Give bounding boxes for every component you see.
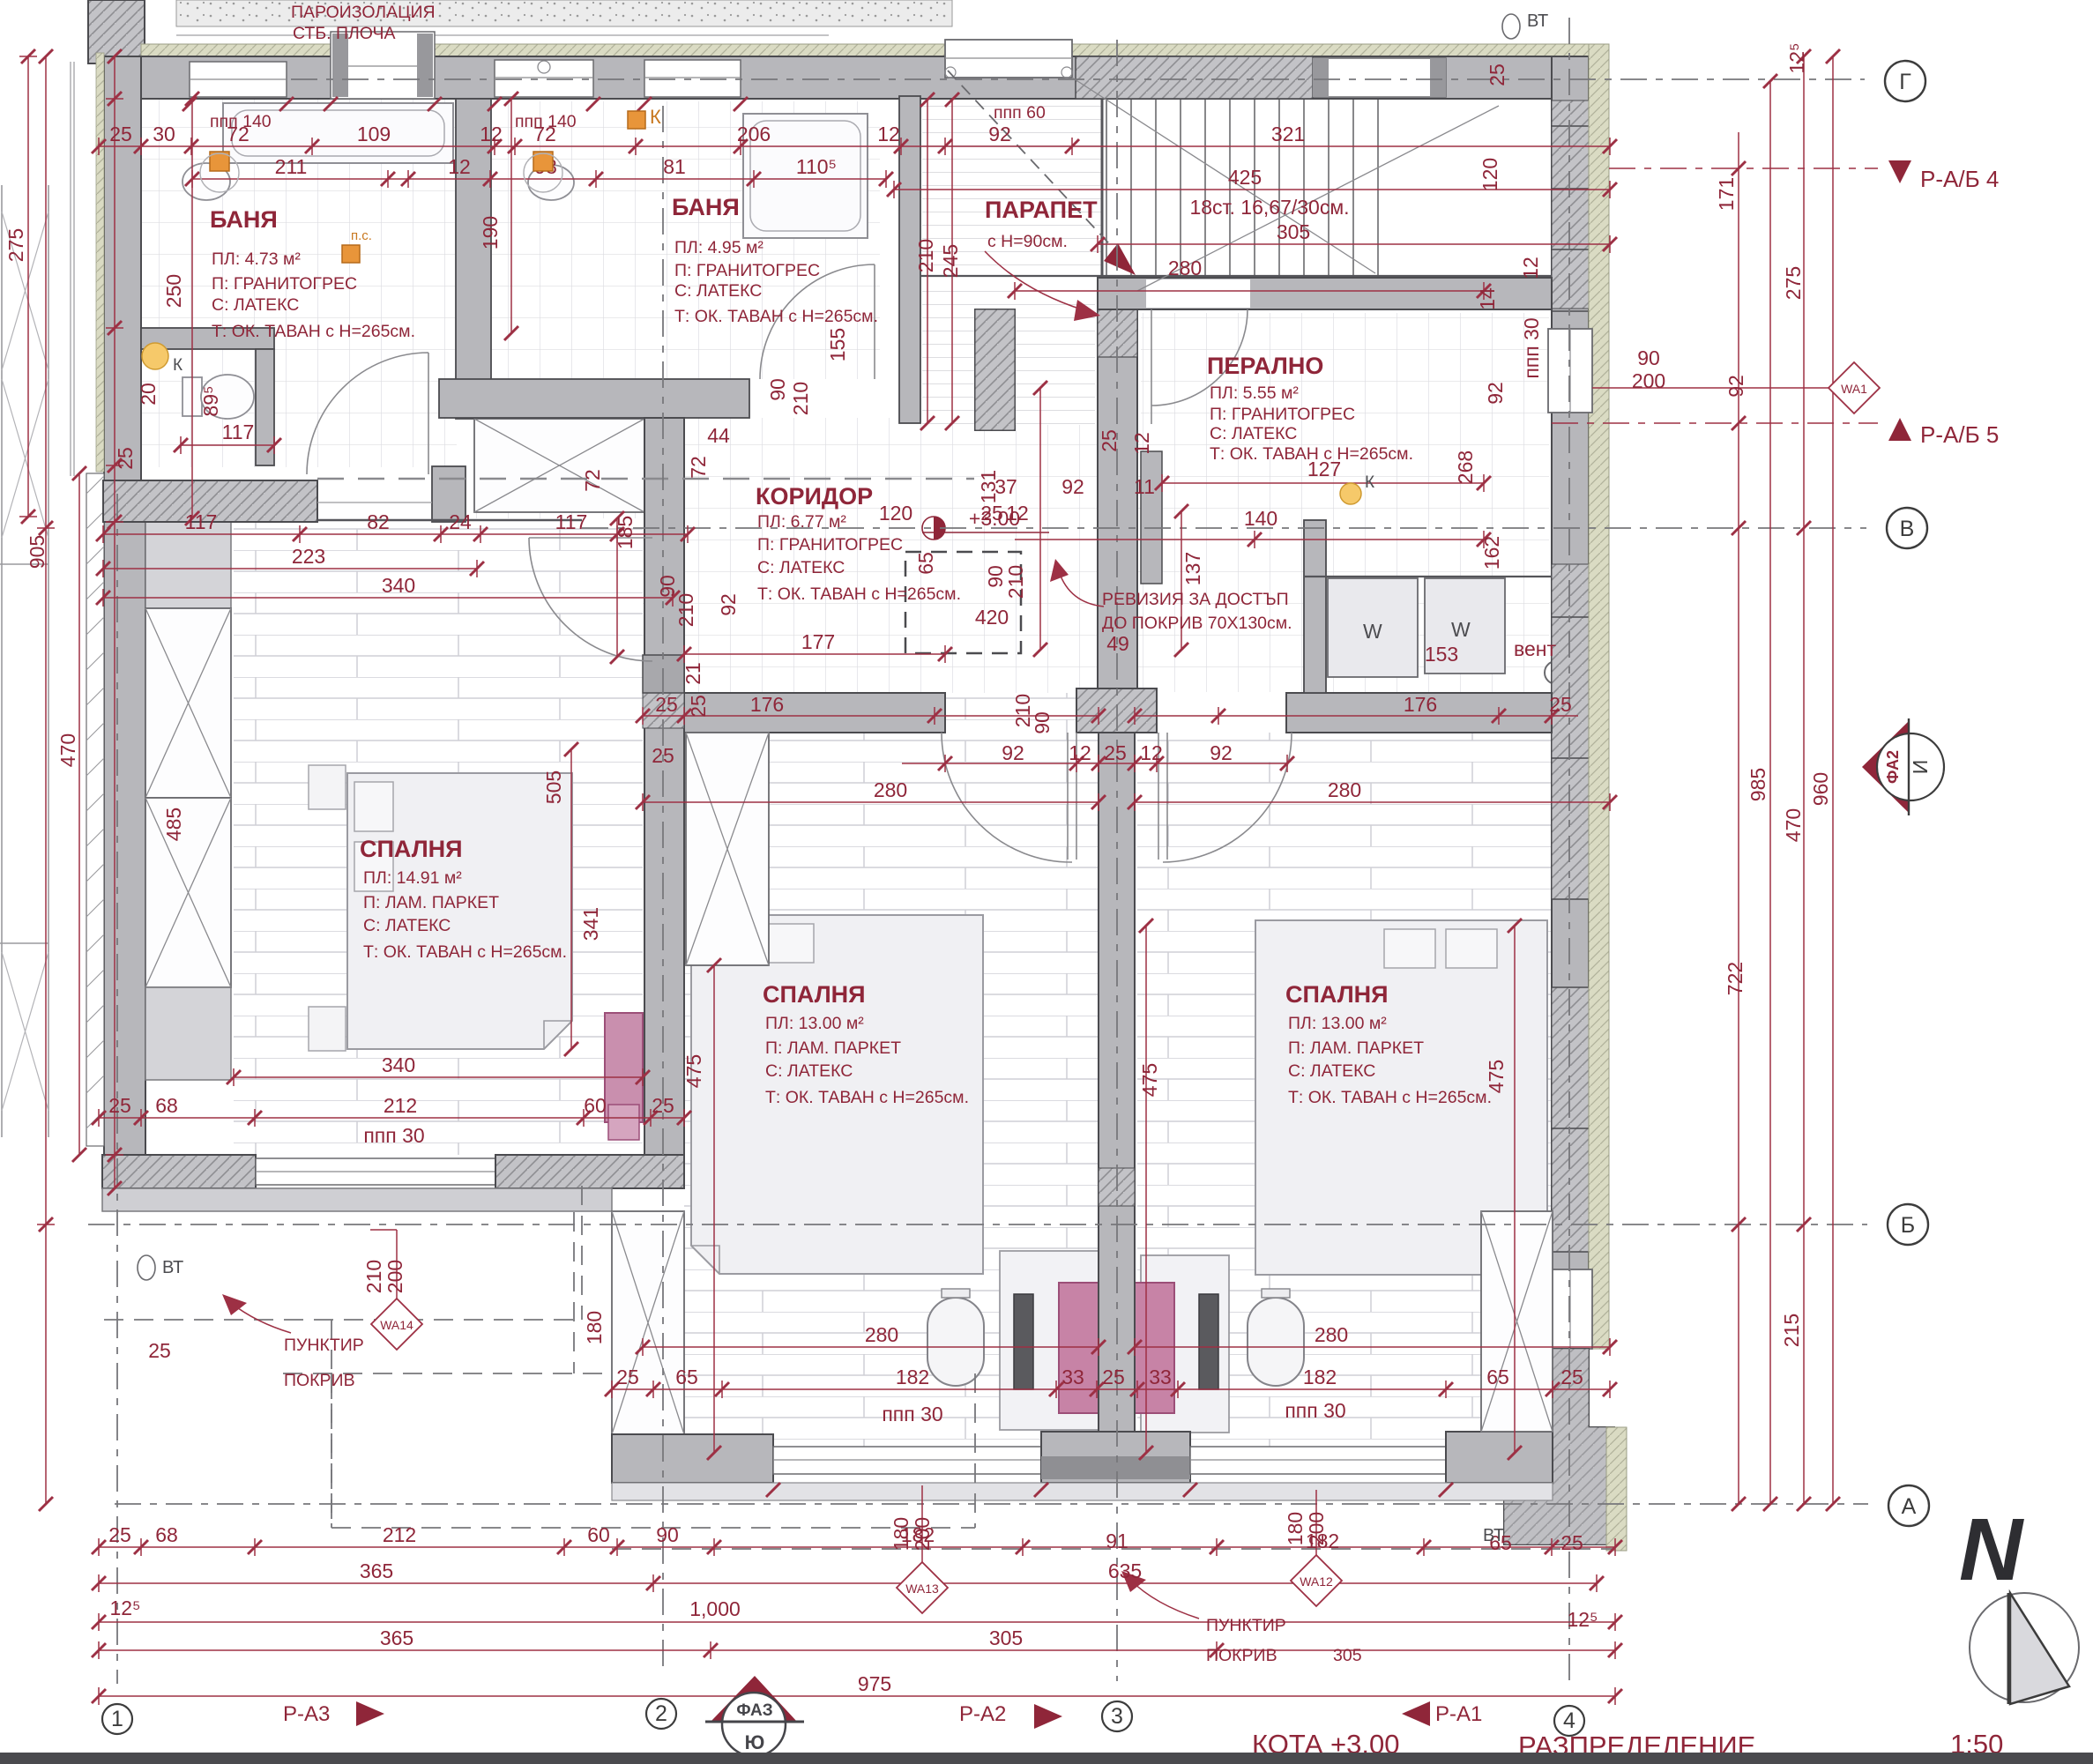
door arc laundry <box>1151 309 1248 424</box>
svg-text:25: 25 <box>1098 429 1121 452</box>
svg-text:635: 635 <box>1108 1559 1142 1582</box>
window top W3 <box>495 60 593 97</box>
bedroom 1 bottom wall hatched right <box>495 1155 684 1188</box>
dim chain 340 upper <box>103 589 673 607</box>
svg-text:280: 280 <box>874 778 907 801</box>
bedroom 1 bottom window <box>256 1158 495 1185</box>
bedroom 2 bottom window <box>773 1447 1041 1474</box>
dim chain 280 bedroom2 y910 <box>643 793 1099 811</box>
svg-text:БАНЯ: БАНЯ <box>672 194 740 220</box>
svg-text:ПЕРАЛНО: ПЕРАЛНО <box>1207 353 1323 379</box>
svg-text:П: ГРАНИТОГРЕС: П: ГРАНИТОГРЕС <box>1210 405 1355 424</box>
laundry closet wall <box>1141 451 1162 584</box>
svg-text:200: 200 <box>911 1517 934 1551</box>
svg-text:И: И <box>1909 760 1932 775</box>
svg-text:25: 25 <box>655 693 678 716</box>
dim vertical right x2008 <box>1769 81 1771 1504</box>
orange symbols <box>210 152 229 171</box>
svg-text:Р-А/Б 4: Р-А/Б 4 <box>1920 166 1999 192</box>
dim chain 280 bottom bedroom3 y1528 <box>1135 1338 1610 1356</box>
svg-text:137: 137 <box>1181 552 1204 585</box>
stair big arrow leader <box>985 251 1084 310</box>
svg-text:92: 92 <box>1724 375 1747 398</box>
svg-text:2: 2 <box>655 1701 667 1726</box>
north compass <box>1970 1593 2079 1702</box>
svg-text:ппп 30: ппп 30 <box>363 1124 424 1147</box>
stair diagonal guide 1 <box>1072 78 1375 273</box>
stair treads <box>1106 100 1378 276</box>
stair rail line <box>920 275 1552 277</box>
svg-text:ПЛ: 6.77 м²: ПЛ: 6.77 м² <box>757 512 846 532</box>
svg-text:210: 210 <box>1004 565 1027 599</box>
svg-text:505: 505 <box>542 770 565 804</box>
svg-text:П: ГРАНИТОГРЕС: П: ГРАНИТОГРЕС <box>212 274 357 294</box>
washer W1 laundry <box>1328 578 1418 677</box>
svg-text:475: 475 <box>682 1054 705 1088</box>
facade marker ФА2 / И <box>1862 721 1909 813</box>
dim leader WA1 <box>1592 387 1836 389</box>
svg-text:п.с.: п.с. <box>351 228 372 243</box>
svg-text:92: 92 <box>1061 475 1084 498</box>
svg-text:СПАЛНЯ: СПАЛНЯ <box>763 981 866 1008</box>
svg-text:117: 117 <box>185 510 218 533</box>
dim chain bottom interior y1576 <box>612 1381 1610 1398</box>
bedroom 1 floor <box>234 518 643 1155</box>
svg-text:12: 12 <box>1006 502 1029 525</box>
svg-text:25: 25 <box>1560 1366 1583 1388</box>
right wall hatch segments <box>1552 100 1589 309</box>
svg-text:65: 65 <box>914 552 937 575</box>
bedroom 1 outer sill band <box>102 1188 612 1211</box>
svg-text:12: 12 <box>877 123 900 145</box>
svg-text:49: 49 <box>1106 632 1129 655</box>
svg-text:155: 155 <box>826 328 849 361</box>
svg-text:Ю: Ю <box>745 1731 765 1753</box>
svg-text:ппп 30: ппп 30 <box>1285 1399 1345 1422</box>
svg-text:475: 475 <box>1138 1063 1161 1097</box>
spine wall top header <box>1076 688 1157 733</box>
bottom wall center block (spine footer) <box>1041 1432 1190 1483</box>
svg-text:305: 305 <box>1277 220 1310 243</box>
svg-text:ПЛ: 5.55 м²: ПЛ: 5.55 м² <box>1210 383 1299 403</box>
svg-text:280: 280 <box>1328 778 1361 801</box>
svg-text:12⁵: 12⁵ <box>1785 42 1808 73</box>
svg-text:Р-А3: Р-А3 <box>283 1702 330 1726</box>
svg-text:92: 92 <box>717 593 740 616</box>
corner X box bedroom 2 bottom-left <box>612 1211 684 1434</box>
svg-text:25: 25 <box>1560 1531 1583 1554</box>
svg-text:1,000: 1,000 <box>689 1597 741 1620</box>
svg-text:ПУНКТИР: ПУНКТИР <box>1206 1616 1286 1635</box>
svg-text:С: ЛАТЕКС: С: ЛАТЕКС <box>1210 424 1297 443</box>
dim verticals laundry <box>1040 388 1181 650</box>
svg-text:12: 12 <box>448 155 471 178</box>
pink cabinet bedroom 2 <box>1059 1283 1099 1413</box>
WA13 diamond <box>897 1562 948 1613</box>
svg-text:ПЛ: 13.00 м²: ПЛ: 13.00 м² <box>765 1014 864 1033</box>
svg-text:212: 212 <box>383 1523 416 1546</box>
dim chain bedroom2 top y812 <box>643 707 1099 725</box>
corridor bottom wall / bedroom 2 top wall <box>684 693 945 733</box>
svg-text:131: 131 <box>977 470 1000 503</box>
dim vertical bathroom2 190 <box>510 99 512 333</box>
right wall window (laundry) <box>1548 329 1592 413</box>
svg-text:Т: ОК. ТАВАН с Н=265см.: Т: ОК. ТАВАН с Н=265см. <box>1288 1088 1492 1107</box>
svg-text:ФАЗ: ФАЗ <box>736 1701 772 1720</box>
svg-text:182: 182 <box>1303 1366 1337 1388</box>
svg-text:485: 485 <box>162 808 185 841</box>
svg-text:БАНЯ: БАНЯ <box>210 206 278 233</box>
bathroom 1 floor <box>141 99 457 467</box>
axis circle 1 <box>102 1704 132 1734</box>
axis 3 line <box>1116 40 1118 1681</box>
svg-text:С: ЛАТЕКС: С: ЛАТЕКС <box>363 916 451 935</box>
svg-text:ВТ: ВТ <box>1527 11 1548 31</box>
dim chain bottom row4 y1872 <box>99 1641 1615 1659</box>
leader ревизия arrow <box>1059 571 1104 607</box>
right exterior wall <box>1552 56 1589 1349</box>
dim chain top row 2 <box>192 170 886 188</box>
wardrobe pink bedroom 1 <box>605 1013 643 1122</box>
svg-text:СТБ. ПЛОЧА: СТБ. ПЛОЧА <box>293 24 396 43</box>
axis circle Б <box>1888 1204 1928 1245</box>
washbasin bathroom 1 <box>182 163 230 200</box>
svg-text:ппп 140: ппп 140 <box>210 112 272 131</box>
door arc bathroom 1 <box>307 353 428 474</box>
svg-text:WA13: WA13 <box>905 1582 939 1596</box>
svg-text:W: W <box>1363 620 1382 643</box>
right wall window (bedroom 3) <box>1548 1269 1592 1349</box>
svg-text:280: 280 <box>1315 1323 1348 1346</box>
bathroom divider wall 1 <box>456 99 491 419</box>
corridor floor <box>474 418 1141 693</box>
level mark +3.00 <box>934 517 945 540</box>
svg-text:WA1: WA1 <box>1841 382 1867 396</box>
svg-text:с Н=90см.: с Н=90см. <box>987 232 1068 251</box>
toilet bathroom 1 <box>182 377 202 416</box>
bedroom 3 top wall <box>1286 693 1552 733</box>
svg-text:ПАРАПЕТ: ПАРАПЕТ <box>985 197 1098 223</box>
svg-text:425: 425 <box>1228 166 1262 189</box>
svg-text:20: 20 <box>137 383 160 406</box>
pink cabinet bedroom 3 <box>1135 1283 1174 1413</box>
bathtub bathroom 2 <box>743 114 868 238</box>
WC alcove top wall <box>141 328 274 349</box>
svg-text:С: ЛАТЕКС: С: ЛАТЕКС <box>757 558 845 577</box>
svg-text:П: ЛАМ. ПАРКЕТ: П: ЛАМ. ПАРКЕТ <box>765 1038 901 1058</box>
bathtub bathroom 1 <box>223 103 453 163</box>
svg-text:СПАЛНЯ: СПАЛНЯ <box>360 836 463 862</box>
svg-text:14: 14 <box>1476 287 1499 310</box>
svg-text:ппп 30: ппп 30 <box>1520 317 1543 378</box>
insulation strip along top wall <box>141 44 1606 57</box>
landing/laundry divider <box>1098 278 1137 692</box>
svg-text:91: 91 <box>1106 1530 1128 1552</box>
washer W2 laundry <box>1425 578 1505 674</box>
svg-text:25: 25 <box>652 1094 674 1117</box>
svg-text:ПАРОИЗОЛАЦИЯ: ПАРОИЗОЛАЦИЯ <box>291 3 436 22</box>
svg-text:П: ЛАМ. ПАРКЕТ: П: ЛАМ. ПАРКЕТ <box>363 893 499 912</box>
svg-text:210: 210 <box>914 239 937 272</box>
svg-text:305: 305 <box>989 1626 1023 1649</box>
dim vertical stairs 210-245 <box>927 100 952 423</box>
dim chain bottom row2 y1796 <box>99 1574 1597 1592</box>
dim chain bedroom1 y1268 <box>99 1109 684 1127</box>
svg-text:25: 25 <box>1104 741 1127 764</box>
svg-text:206: 206 <box>737 123 771 145</box>
bathroom 1 door jamb block <box>432 466 466 522</box>
laundry floor <box>1141 313 1549 692</box>
corridor/laundry divider wall <box>975 309 1015 430</box>
dim chain bottom row3 y1840 <box>99 1613 1615 1631</box>
svg-text:210: 210 <box>789 382 812 415</box>
svg-text:ВТ: ВТ <box>1483 1526 1504 1545</box>
svg-text:60: 60 <box>584 1094 607 1117</box>
dim leader WA14 <box>370 1230 397 1299</box>
section marker P-A/B 5 <box>1888 418 1911 441</box>
leader пунктир правый <box>1130 1580 1199 1619</box>
leader пунктир левый <box>231 1303 291 1333</box>
dim chain bottom row5 y1924 <box>99 1687 1615 1705</box>
chair bedroom 3 <box>1248 1298 1304 1386</box>
svg-text:176: 176 <box>750 693 784 716</box>
top-left corner hatched block <box>88 0 145 63</box>
svg-text:65: 65 <box>1486 1366 1509 1388</box>
facade marker ФАЗ / Ю <box>711 1676 797 1722</box>
dim chain top row 1 <box>99 138 1610 155</box>
svg-text:ПЛ: 14.91 м²: ПЛ: 14.91 м² <box>363 868 462 888</box>
left exterior wall (bedroom 1 area) <box>104 518 145 1188</box>
svg-text:25: 25 <box>1549 693 1572 716</box>
dim verticals bedroom2 475 <box>714 926 1515 1453</box>
svg-text:ПЛ: 4.73 м²: ПЛ: 4.73 м² <box>212 249 301 269</box>
french window X column bedroom 1 <box>145 608 231 798</box>
svg-text:90: 90 <box>766 378 789 401</box>
dim chain bath row y600 <box>103 525 688 543</box>
svg-text:92: 92 <box>1484 382 1507 405</box>
left exterior wall (bathroom area) <box>104 56 141 522</box>
svg-text:162: 162 <box>1480 536 1503 569</box>
svg-text:РЕВИЗИЯ ЗА ДОСТЪП: РЕВИЗИЯ ЗА ДОСТЪП <box>1102 590 1289 609</box>
svg-text:72: 72 <box>687 456 710 479</box>
window sill box lower (left wall) <box>145 987 231 1080</box>
dim vertical left x52 <box>37 56 55 1504</box>
svg-text:722: 722 <box>1724 962 1747 995</box>
laundry W-closet top line <box>1305 576 1552 577</box>
axis Б line <box>88 1224 1867 1225</box>
bathroom 2 floor <box>491 101 880 379</box>
bedroom 3 bottom wall block <box>1446 1432 1553 1483</box>
top wall hatched segment <box>1076 56 1313 99</box>
bed 3 pillows <box>1446 929 1497 968</box>
dim chain bedroom3 top y812 <box>1135 707 1578 725</box>
svg-text:ппп 30: ппп 30 <box>882 1403 942 1425</box>
axis circle Г <box>1885 61 1925 101</box>
dim verticals interior bedroom1 <box>571 518 617 1049</box>
svg-text:275: 275 <box>1782 266 1805 300</box>
WA14 diamond <box>371 1299 422 1350</box>
axis 1 line <box>116 494 118 1684</box>
stair void floor <box>922 101 1103 278</box>
stair landing floor <box>922 279 1095 425</box>
svg-text:25: 25 <box>148 1339 171 1362</box>
svg-text:223: 223 <box>292 545 325 568</box>
svg-text:К: К <box>1365 473 1374 492</box>
window top W6 <box>1313 58 1446 97</box>
svg-text:365: 365 <box>380 1626 413 1649</box>
window top W1 <box>190 62 287 97</box>
svg-text:210: 210 <box>1011 694 1034 727</box>
svg-text:212: 212 <box>384 1094 417 1117</box>
nightstand 1a <box>309 765 346 809</box>
svg-text:П: ГРАНИТОГРЕС: П: ГРАНИТОГРЕС <box>674 261 820 280</box>
bottom-right corner block <box>1504 1349 1614 1544</box>
svg-text:WA14: WA14 <box>380 1318 413 1332</box>
WA12 diamond <box>1291 1555 1342 1606</box>
svg-text:Р-А1: Р-А1 <box>1435 1702 1482 1726</box>
dim chain corridor 177 <box>684 645 945 663</box>
bathroom bottom wall hatched (left) <box>103 480 317 522</box>
svg-text:Т: ОК. ТАВАН с Н=265см.: Т: ОК. ТАВАН с Н=265см. <box>1210 444 1413 464</box>
bedroom divider wall 1-2 <box>644 418 684 1187</box>
axis Г line <box>291 78 1865 80</box>
window sill box upper (left wall) <box>145 522 231 608</box>
axis circle А <box>1888 1485 1929 1526</box>
dim chain 280 bottom bedroom2 y1528 <box>643 1338 1099 1356</box>
svg-text:960: 960 <box>1809 772 1832 806</box>
door arc corridor to bedroom 1 <box>529 538 652 661</box>
dim chain bedroom1 340 y1222 <box>234 1068 643 1086</box>
svg-text:Р-А2: Р-А2 <box>959 1702 1006 1726</box>
svg-text:200: 200 <box>1305 1512 1328 1545</box>
svg-text:81: 81 <box>663 155 686 178</box>
svg-text:185: 185 <box>614 516 637 549</box>
svg-text:ПОКРИВ: ПОКРИВ <box>1206 1646 1277 1665</box>
svg-text:117: 117 <box>222 421 255 443</box>
svg-text:12: 12 <box>480 123 503 145</box>
dim vertical left x32 <box>19 56 37 517</box>
svg-text:18ст. 16,67/30см.: 18ст. 16,67/30см. <box>1189 196 1349 219</box>
svg-text:176: 176 <box>1404 693 1437 716</box>
svg-text:А: А <box>1902 1494 1917 1519</box>
bed 2 (bedroom 2) <box>691 915 983 1274</box>
svg-text:68: 68 <box>155 1523 178 1546</box>
stair diagonal guide 2 <box>1137 106 1499 291</box>
vent circle laundry <box>1545 661 1568 684</box>
laundry W-closet left wall <box>1304 520 1326 693</box>
svg-text:68: 68 <box>155 1094 178 1117</box>
svg-text:ПОКРИВ: ПОКРИВ <box>284 1371 355 1390</box>
svg-text:25: 25 <box>652 744 674 767</box>
stairwell left wall <box>899 96 920 423</box>
svg-text:12: 12 <box>1519 257 1542 279</box>
svg-text:470: 470 <box>1782 808 1805 842</box>
dim vertical right x1972 <box>1738 132 1739 1504</box>
svg-text:177: 177 <box>801 630 835 653</box>
svg-text:180: 180 <box>1284 1512 1307 1545</box>
svg-text:25: 25 <box>108 1094 131 1117</box>
bathroom 2 bottom wall <box>439 379 749 418</box>
svg-text:К: К <box>173 356 182 375</box>
svg-text:109: 109 <box>357 123 391 145</box>
svg-text:365: 365 <box>360 1559 393 1582</box>
svg-text:110⁵: 110⁵ <box>796 155 837 178</box>
neighbor slab band top <box>176 0 952 26</box>
svg-text:21: 21 <box>682 662 704 685</box>
dim chain laundry 127 <box>1162 474 1484 492</box>
bedroom 3 bottom window <box>1190 1447 1446 1474</box>
top exterior wall <box>104 56 1606 99</box>
svg-text:89⁵: 89⁵ <box>199 385 222 416</box>
svg-text:975: 975 <box>858 1672 891 1695</box>
nightstand 1b <box>309 1007 346 1051</box>
roof dashed line bottom <box>283 1212 975 1528</box>
svg-text:ДО ПОКРИВ 70Х130см.: ДО ПОКРИВ 70Х130см. <box>1102 614 1292 633</box>
svg-text:Т: ОК. ТАВАН с Н=265см.: Т: ОК. ТАВАН с Н=265см. <box>674 307 878 326</box>
svg-text:С: ЛАТЕКС: С: ЛАТЕКС <box>674 281 762 301</box>
WA1 diamond <box>1829 362 1880 413</box>
svg-text:3: 3 <box>1111 1704 1123 1729</box>
neighbor wall hatch strip <box>86 473 104 1146</box>
bed 2 pillows <box>701 924 752 963</box>
dim vertical bathroom1 250 <box>191 99 193 518</box>
svg-text:92: 92 <box>1002 741 1024 764</box>
bedroom 2 floor <box>684 733 1099 1453</box>
svg-text:200: 200 <box>384 1260 406 1293</box>
svg-text:30: 30 <box>153 123 175 145</box>
axis circle В <box>1887 508 1927 548</box>
svg-text:200: 200 <box>1632 369 1665 392</box>
svg-text:470: 470 <box>56 733 79 767</box>
svg-text:245: 245 <box>939 244 962 278</box>
svg-text:117: 117 <box>555 510 588 533</box>
svg-text:ппп 140: ппп 140 <box>515 112 577 131</box>
svg-text:250: 250 <box>162 274 185 308</box>
section marker P-A1 <box>1402 1701 1430 1726</box>
chair bedroom 2 <box>927 1298 984 1386</box>
window top W2 (over bathtub 1) <box>331 32 435 99</box>
washbasin bathroom 2 <box>528 165 574 200</box>
svg-text:ппп 60: ппп 60 <box>994 103 1046 123</box>
svg-text:182: 182 <box>896 1366 929 1388</box>
corner X box bedroom 3 bottom-right <box>1481 1211 1553 1432</box>
dim chain spine y866 <box>902 755 1287 772</box>
dim chain 280 bedroom3 y910 <box>1135 793 1610 811</box>
svg-text:ВТ: ВТ <box>162 1258 183 1277</box>
svg-text:171: 171 <box>1715 177 1738 211</box>
roof dashed line bedrooms 2-3 <box>612 1548 1614 1550</box>
dim chain laundry 280 <box>1015 282 1484 300</box>
svg-text:25: 25 <box>687 695 710 718</box>
svg-text:вент: вент <box>1514 637 1556 660</box>
dim chain laundry 140 <box>1015 531 1484 548</box>
bedroom 2 bottom wall block <box>612 1434 773 1483</box>
svg-text:60: 60 <box>587 1523 610 1546</box>
desk bedroom 2 <box>1000 1251 1099 1430</box>
roof access dashed rect <box>905 552 1021 653</box>
svg-text:24: 24 <box>449 510 472 533</box>
svg-text:С: ЛАТЕКС: С: ЛАТЕКС <box>765 1061 853 1081</box>
dim chain stairs 305 <box>1098 235 1610 253</box>
axis circle 4 <box>1554 1706 1584 1736</box>
svg-text:44: 44 <box>707 424 730 447</box>
svg-text:СПАЛНЯ: СПАЛНЯ <box>1285 981 1389 1008</box>
desk bedroom 3 <box>1141 1255 1229 1433</box>
svg-text:Б: Б <box>1901 1213 1915 1238</box>
svg-text:82: 82 <box>367 510 390 533</box>
window top W4 <box>644 60 741 97</box>
spine wall bedroom 2-3 <box>1099 733 1135 1465</box>
